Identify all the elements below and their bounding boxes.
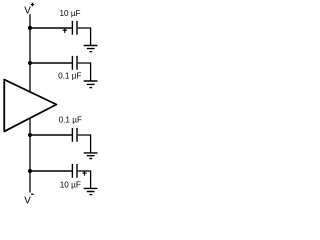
junction dot (V- / C4) bbox=[28, 169, 32, 173]
V+ superscript plus bbox=[31, 3, 34, 7]
wire: C2 to ground bbox=[78, 63, 91, 81]
svg-text:0.1 µF: 0.1 µF bbox=[59, 115, 82, 124]
svg-text:10 µF: 10 µF bbox=[59, 9, 80, 18]
svg-text:0.1 µF: 0.1 µF bbox=[58, 72, 81, 81]
junction dot (V+ / C1) bbox=[28, 26, 32, 30]
wire: C1 to ground bbox=[78, 28, 91, 46]
wire: C3 to ground bbox=[78, 135, 91, 153]
wire: C4 to ground bbox=[78, 171, 91, 188]
svg-text:V: V bbox=[24, 196, 31, 205]
wire: V+ rail to C1 bbox=[30, 27, 72, 29]
junction dot (V- / C3) bbox=[28, 133, 32, 137]
ground (C4) bbox=[84, 188, 98, 194]
svg-text:10 µF: 10 µF bbox=[60, 180, 81, 189]
C1 + polarity mark bbox=[63, 28, 67, 33]
wire: V+ rail to C2 bbox=[30, 62, 72, 64]
V- superscript minus bbox=[31, 193, 34, 195]
capacitor C1 (10 µF) plates bbox=[72, 21, 77, 35]
capacitor C4 (10 µF) plates bbox=[72, 164, 77, 178]
ground (C3) bbox=[84, 153, 98, 159]
wire: V+ vertical bus bbox=[29, 14, 31, 92]
wire: V- vertical bus bbox=[29, 118, 31, 192]
ground (C1) bbox=[84, 46, 98, 52]
ground (C2) bbox=[84, 81, 98, 88]
capacitor C2 (0.1 µF) plates bbox=[72, 56, 77, 70]
junction dot (V+ / C2) bbox=[28, 61, 32, 65]
op-amp U1 bbox=[4, 80, 56, 132]
C4 + polarity mark bbox=[82, 171, 86, 176]
wire: V- rail to C4 bbox=[30, 170, 72, 172]
capacitor C3 (0.1 µF) plates bbox=[72, 128, 77, 142]
wire: V- rail to C3 bbox=[30, 134, 72, 136]
